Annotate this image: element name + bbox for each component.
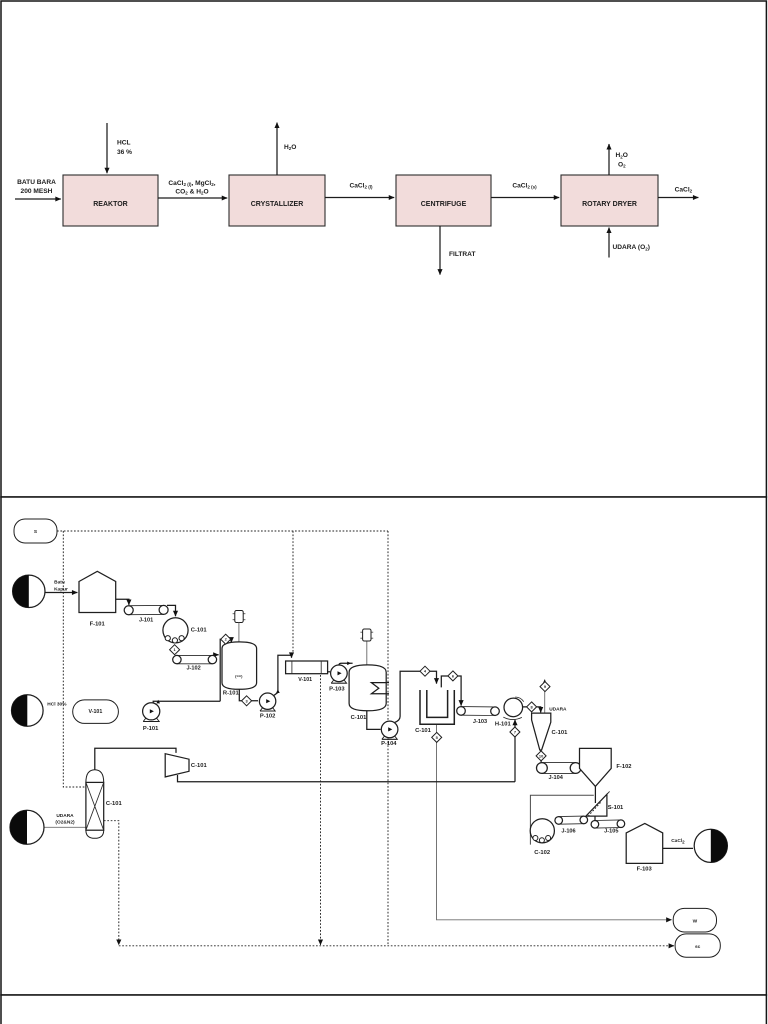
svg-text:FILTRAT: FILTRAT [449, 251, 476, 258]
svg-text:J-105: J-105 [604, 828, 618, 834]
svg-text:Batu: Batu [54, 580, 65, 586]
svg-text:Kapur: Kapur [54, 587, 68, 593]
svg-text:V-101: V-101 [298, 677, 312, 683]
svg-text:J-102: J-102 [186, 665, 200, 671]
svg-text:C-102: C-102 [534, 850, 550, 856]
svg-text:10: 10 [539, 753, 543, 758]
svg-text:HCl 30%: HCl 30% [47, 702, 67, 708]
svg-text:C-101: C-101 [351, 715, 368, 721]
svg-text:UDARA (O2​): UDARA (O2​) [613, 244, 650, 251]
svg-text:UDARA: UDARA [56, 813, 74, 819]
svg-text:CRYSTALLIZER: CRYSTALLIZER [251, 201, 304, 208]
svg-text:C-101: C-101 [191, 627, 208, 633]
svg-text:C-101: C-101 [191, 763, 208, 769]
svg-text:CaCl2​: CaCl2​ [671, 838, 685, 844]
svg-text:F-103: F-103 [637, 867, 653, 873]
svg-text:UDARA: UDARA [549, 707, 567, 713]
svg-text:(O2&N2): (O2&N2) [55, 819, 75, 825]
svg-text:CO2​ & H2​O: CO2​ & H2​O [175, 188, 208, 195]
svg-text:P-104: P-104 [381, 741, 397, 747]
svg-text:REAKTOR: REAKTOR [93, 201, 127, 208]
svg-text:HCL: HCL [117, 140, 131, 147]
svg-text:F-101: F-101 [90, 622, 106, 628]
svg-text:W: W [693, 919, 698, 925]
svg-text:(==): (==) [235, 674, 243, 679]
svg-text:CaCl2 (l)​, MgCl2​,: CaCl2 (l)​, MgCl2​, [168, 180, 215, 187]
svg-text:P-101: P-101 [143, 726, 159, 732]
svg-text:BATU BARA: BATU BARA [17, 179, 56, 186]
svg-text:36 %: 36 % [117, 149, 132, 156]
svg-text:V-101: V-101 [88, 709, 102, 715]
svg-text:R-101: R-101 [223, 691, 240, 697]
svg-text:C-101: C-101 [552, 730, 569, 736]
svg-text:sc: sc [695, 945, 701, 950]
svg-text:7: 7 [514, 730, 516, 735]
svg-text:C-101: C-101 [106, 801, 123, 807]
svg-text:F-102: F-102 [616, 764, 631, 770]
svg-text:J-104: J-104 [549, 775, 564, 781]
svg-text:J-101: J-101 [139, 618, 153, 624]
svg-text:S-101: S-101 [608, 805, 624, 811]
svg-text:P-103: P-103 [329, 687, 345, 693]
svg-text:200 MESH: 200 MESH [21, 188, 53, 195]
svg-text:P-102: P-102 [260, 713, 275, 719]
svg-text:CENTRIFUGE: CENTRIFUGE [421, 201, 467, 208]
svg-text:J-106: J-106 [561, 828, 575, 834]
svg-text:ROTARY DRYER: ROTARY DRYER [582, 201, 637, 208]
svg-text:H-101: H-101 [495, 721, 512, 727]
svg-text:C-101: C-101 [415, 728, 432, 734]
svg-text:J-103: J-103 [473, 719, 487, 725]
